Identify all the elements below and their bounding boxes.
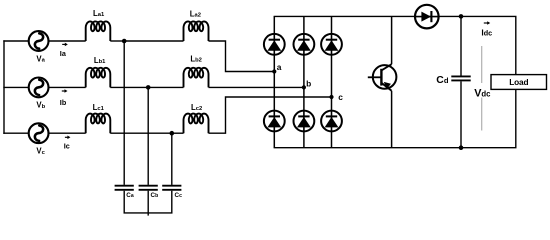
diode D1 (top row) (264, 34, 285, 55)
svg-text:Ib: Ib (60, 98, 67, 107)
wire left bus (3, 40, 5, 134)
svg-text:a: a (277, 62, 282, 72)
capacitor Cc (162, 186, 181, 190)
wire Lb1 to node B (110, 86, 148, 88)
svg-text:Cb: Cb (151, 192, 159, 199)
node bottom rail / Cd junction (459, 145, 464, 150)
wire node A to La2 (124, 40, 183, 42)
wire Vc to Lc1 (49, 132, 86, 134)
wire Va to La1 (49, 40, 86, 42)
wire phase B bus to source Vb (3, 86, 28, 88)
wire phase A bus to source Va (3, 40, 28, 42)
wire Lc2 to bridge node c (step up) (209, 97, 332, 133)
node b junction (302, 85, 306, 89)
svg-text:Cd: Cd (436, 75, 449, 86)
transistor Q1 (368, 64, 397, 91)
wire bridge leg 1 (273, 16, 275, 147)
wire capacitor bottom bus (124, 191, 172, 213)
svg-text:b: b (306, 79, 311, 89)
wire Lc1 to node C (110, 132, 172, 134)
wire top rail to transistor collector (391, 16, 393, 64)
inductor Lb1 (86, 68, 111, 88)
inductor Lc1 (86, 114, 111, 134)
diode D3 (top row) (321, 34, 342, 55)
capacitor Cd (451, 76, 470, 80)
node top rail / Cd junction (459, 14, 464, 19)
wire node B to capacitor Cb (147, 87, 149, 184)
current arrow Ib (62, 89, 68, 93)
wire DC top rail (274, 15, 517, 17)
capacitor Cb (139, 186, 158, 190)
svg-text:c: c (338, 92, 343, 102)
diode D4 (bottom row) (264, 111, 285, 132)
svg-text:Ca: Ca (126, 192, 134, 199)
current arrow Ic (65, 136, 71, 140)
wire top rail to Cd (460, 16, 462, 75)
AC source Va (29, 31, 49, 51)
diode D7 (series, top rail) (415, 5, 439, 29)
wire node B to Lb2 (148, 86, 183, 88)
diode D6 (bottom row) (321, 111, 342, 132)
load box (491, 75, 547, 90)
wire top rail to load (515, 16, 517, 74)
node B junction (146, 85, 151, 90)
AC source Vb (29, 78, 49, 98)
svg-text:Vdc: Vdc (474, 87, 491, 99)
inductor Lb2 (184, 68, 209, 88)
wire bridge leg 2 (303, 16, 305, 147)
svg-text:Ia: Ia (60, 49, 67, 58)
wire node A to capacitor Ca (123, 41, 125, 185)
wire Cd to bottom rail (460, 81, 462, 147)
wire Cb stem to bottom bus (147, 191, 149, 216)
current arrow Ia (62, 43, 68, 47)
inductor Lc2 (184, 114, 209, 134)
inductor La2 (184, 21, 209, 41)
wire bridge leg 3 (331, 16, 333, 147)
wire node C to capacitor Cc (171, 133, 173, 185)
svg-text:Idc: Idc (481, 28, 492, 38)
wire node C to Lc2 (172, 132, 184, 134)
capacitor Ca (115, 186, 134, 190)
wire Lb2 to bridge node b (209, 86, 304, 88)
wire phase C bus to source Vc (3, 132, 28, 134)
node C junction (170, 131, 175, 136)
wire load to bottom rail (515, 89, 517, 147)
wire Vb to Lb1 (49, 86, 86, 88)
AC source Vc (29, 123, 49, 143)
svg-text:Ic: Ic (64, 142, 70, 151)
wire La2 to bridge node a (step down) (209, 41, 275, 72)
diode D2 (top row) (294, 34, 315, 55)
wire La1 to node A (110, 40, 124, 42)
wire DC bottom rail (274, 147, 517, 149)
node c junction (329, 95, 333, 99)
svg-text:Cc: Cc (175, 192, 183, 199)
wire transistor emitter to bottom rail (391, 91, 393, 148)
diode D5 (bottom row) (294, 111, 315, 132)
svg-text:Load: Load (509, 77, 528, 87)
node A junction (122, 39, 127, 44)
current arrow Idc (484, 21, 490, 25)
node a junction (272, 69, 276, 73)
measurement line Vdc upper (481, 46, 483, 83)
inductor La1 (86, 21, 111, 41)
measurement line Vdc lower (481, 98, 483, 131)
